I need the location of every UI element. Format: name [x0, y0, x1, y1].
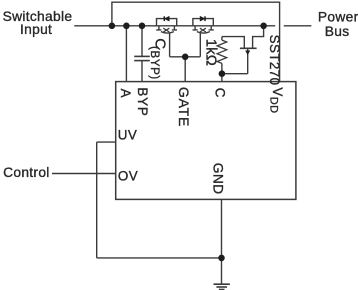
node gate join	[182, 54, 189, 61]
diode D2	[200, 16, 205, 21]
wire GND pin down to ground	[221, 199, 223, 283]
svg-text:SST270: SST270	[267, 35, 282, 86]
transistor Q3 channel bar	[240, 47, 257, 49]
node junction dots	[109, 23, 267, 262]
resistor R1 1k zigzag	[217, 40, 227, 63]
capacitor C(BYP) plates	[134, 56, 150, 60]
wire BYP lower	[141, 61, 143, 82]
wire Q3 source return	[222, 48, 248, 73]
wire BYP upper	[141, 26, 143, 56]
svg-text:GATE: GATE	[176, 87, 192, 127]
node resistor bottom	[219, 70, 226, 77]
diode D1	[164, 16, 169, 21]
label Switchable Input	[3, 9, 73, 37]
node rail-A	[123, 23, 130, 30]
transistor M1 body diode loop	[157, 19, 177, 26]
ground symbol	[214, 284, 230, 289]
transistor M2 body diode loop	[193, 19, 213, 26]
node ground junction	[218, 255, 225, 262]
wire gate join M1-M2 to GATE pin	[170, 33, 201, 82]
svg-text:Bus: Bus	[325, 24, 350, 39]
label Power Bus	[318, 10, 358, 39]
wire bottom to ground junction	[97, 257, 222, 259]
node rail-BYP	[139, 23, 146, 30]
wire top bypass route to VDD	[112, 2, 280, 81]
svg-text:VDD: VDD	[268, 87, 285, 113]
svg-text:OV: OV	[118, 169, 138, 184]
transistor Q3 source arrow	[246, 51, 250, 55]
wire resistor top to Q3 gate	[222, 37, 244, 49]
node rail-top wire	[109, 23, 116, 30]
svg-text:C(BYP): C(BYP)	[148, 38, 169, 80]
svg-text:1kΩ: 1kΩ	[202, 39, 219, 66]
svg-text:GND: GND	[210, 163, 225, 195]
wire Power Bus segment	[284, 25, 312, 27]
IC box U1 SST270	[116, 82, 296, 200]
svg-text:Control: Control	[3, 165, 50, 180]
wire pin A	[125, 26, 127, 82]
wire UV stub	[97, 141, 116, 143]
wire resistor top stub	[221, 37, 223, 41]
transistor M2	[193, 26, 214, 33]
svg-text:BYP: BYP	[135, 87, 150, 116]
node rail-Q3 drain	[260, 23, 267, 30]
wire resistor bottom to pin C	[221, 63, 223, 81]
svg-text:UV: UV	[118, 127, 137, 142]
wire Q3 drain jog	[253, 26, 264, 49]
svg-text:Input: Input	[20, 22, 52, 37]
wire control bracket vertical	[96, 142, 98, 258]
svg-text:A: A	[118, 89, 133, 98]
wire Control to OV	[52, 173, 116, 175]
wire main rail from Switchable Input	[74, 25, 275, 27]
svg-text:Power: Power	[318, 10, 358, 25]
svg-text:C: C	[212, 88, 227, 98]
transistor M1	[156, 26, 177, 33]
